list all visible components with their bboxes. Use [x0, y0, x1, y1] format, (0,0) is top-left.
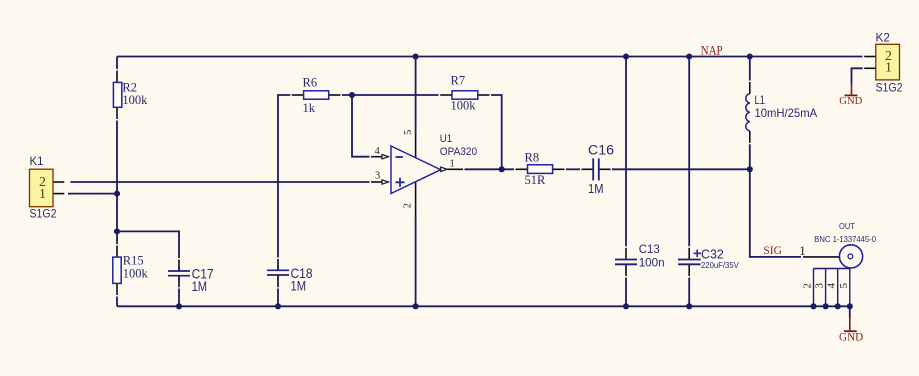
node pin5 top — [413, 53, 419, 59]
pin R8 left — [516, 168, 528, 170]
pin arrow in- — [382, 155, 389, 159]
wire top rail NAP — [117, 56, 863, 58]
svg-text:GND: GND — [839, 95, 862, 107]
wire opamp pin5 to top rail net — [415, 57, 417, 135]
pin R6 right — [329, 94, 341, 96]
svg-text:BNC 1-1337445-0: BNC 1-1337445-0 — [814, 234, 876, 244]
svg-text:R15: R15 — [123, 253, 144, 267]
svg-text:220uF/35V: 220uF/35V — [701, 261, 739, 270]
pin U1-2 — [415, 182, 417, 216]
pin K2-1 — [864, 67, 876, 69]
svg-text:100n: 100n — [639, 255, 665, 269]
pin R7 right — [478, 94, 490, 96]
inductor L1 — [746, 93, 817, 131]
svg-text:3: 3 — [375, 171, 380, 182]
node C18 bottom — [275, 303, 281, 309]
pin C17 top — [178, 260, 180, 272]
svg-text:1: 1 — [39, 187, 46, 202]
wire R8 net to C16 — [566, 168, 580, 170]
svg-text:5: 5 — [403, 130, 414, 135]
resistor R8 — [525, 150, 553, 187]
wire feedback down to pin 4 net — [352, 95, 370, 157]
wire bottom rail GND — [117, 305, 850, 307]
pin C16 right — [599, 168, 611, 170]
svg-text:3: 3 — [814, 283, 826, 289]
pin U1-5 — [415, 135, 417, 158]
svg-text:1: 1 — [885, 61, 892, 76]
svg-text:2: 2 — [802, 283, 814, 289]
ground K2 GND — [839, 84, 862, 107]
svg-text:OUT: OUT — [839, 221, 855, 231]
svg-text:C32: C32 — [701, 247, 724, 262]
pin L1 bottom — [749, 131, 751, 143]
node C17 bottom — [176, 303, 182, 309]
connector K1 — [30, 154, 57, 221]
node C13 top — [623, 53, 629, 59]
pin L1 top — [749, 82, 751, 94]
wire K2 pin1 net to GND — [852, 68, 863, 83]
wire left vertical middle (net R2 to C17 branch) — [116, 121, 118, 245]
pin R6 left — [292, 94, 304, 96]
pin C16 left — [582, 168, 594, 170]
pin C18 bottom — [277, 275, 279, 287]
node L1 top — [747, 53, 753, 59]
wire K1 pin2 to opamp +in net — [71, 181, 370, 183]
node SIG/L1 — [747, 166, 753, 172]
wire R6 left net to C18 — [278, 95, 290, 258]
node R6/R7/pin4 — [349, 92, 355, 98]
pin C13 bottom — [625, 264, 627, 276]
node C32 top — [686, 53, 692, 59]
svg-text:1M: 1M — [192, 279, 208, 294]
BNC shield pins bar — [814, 268, 850, 270]
BNC pin 5 — [849, 269, 851, 307]
svg-text:U1: U1 — [440, 133, 452, 145]
pin C32 bottom — [688, 264, 690, 276]
wire opamp pin2 to bottom rail net — [415, 216, 417, 306]
pin R15 top — [116, 246, 118, 258]
pin R2 top — [116, 71, 118, 83]
pin K1-2 — [53, 181, 64, 183]
svg-text:SIG: SIG — [763, 243, 782, 257]
wire left vertical upper (net above R2) — [116, 57, 118, 70]
svg-text:OPA320: OPA320 — [440, 146, 477, 158]
svg-text:1M: 1M — [588, 182, 604, 196]
wire branch to C17 — [117, 231, 179, 258]
capacitor C32 (polarized) — [678, 247, 739, 271]
node BNC pin5 — [847, 303, 853, 309]
svg-text:100k: 100k — [122, 93, 148, 107]
pin U1-1 — [447, 168, 463, 170]
pin R15 bottom — [116, 283, 118, 295]
pin C17 bottom — [178, 276, 180, 288]
svg-text:1: 1 — [799, 243, 806, 258]
pin BNC-1 — [803, 256, 839, 258]
wire left vertical lower (net below R15) — [116, 297, 118, 307]
svg-text:S1G2: S1G2 — [876, 80, 903, 94]
node BNC pin4 — [835, 303, 841, 309]
node K1 pin1 — [114, 191, 120, 197]
svg-text:K1: K1 — [30, 154, 44, 168]
wire L1 bottom net — [749, 144, 751, 169]
wire R6 right to R7 left net — [342, 94, 439, 96]
wire C17 bottom net — [178, 289, 180, 307]
pin C18 top — [277, 259, 279, 270]
svg-text:R8: R8 — [525, 150, 540, 164]
wire C18 bottom net — [277, 289, 279, 307]
pin R7 left — [440, 94, 452, 96]
node opamp out — [499, 166, 505, 172]
capacitor C17 — [168, 266, 214, 294]
resistor R7 — [451, 74, 478, 113]
pin C32 top — [688, 248, 690, 260]
pin U1-4 — [371, 156, 382, 158]
svg-text:4: 4 — [375, 146, 381, 157]
wire C13 vertical nets — [625, 57, 627, 307]
svg-text:100k: 100k — [123, 266, 149, 280]
pin R2 bottom — [116, 107, 118, 119]
connector K2 — [876, 30, 903, 94]
resistor R15 — [113, 253, 149, 283]
svg-text:K2: K2 — [876, 30, 890, 44]
pin K1-1 — [53, 193, 64, 195]
svg-text:1k: 1k — [303, 101, 316, 115]
pin K2-2 — [864, 56, 876, 58]
resistor R6 — [303, 76, 329, 115]
svg-text:2: 2 — [403, 203, 414, 208]
wire C16 net to L1 bottom node — [612, 168, 750, 170]
svg-text:NAP: NAP — [701, 44, 723, 58]
node C13 bottom — [623, 303, 629, 309]
op-amp U1 — [375, 130, 478, 209]
svg-text:R7: R7 — [451, 74, 466, 88]
ground BNC GND — [839, 318, 863, 344]
pin arrow in+ — [382, 180, 389, 184]
BNC pin 4 — [837, 269, 839, 307]
wire R7 right net down to output node — [491, 95, 502, 169]
BNC connector OUT — [799, 221, 876, 306]
pin U1-3 — [371, 181, 382, 183]
svg-text:100k: 100k — [451, 99, 477, 113]
svg-text:1: 1 — [449, 157, 455, 169]
wire K1 pin1 net — [68, 193, 117, 195]
wire C32 vertical nets — [688, 57, 690, 307]
svg-text:C16: C16 — [588, 142, 614, 158]
svg-text:GND: GND — [839, 331, 863, 343]
wire SIG node down and to BNC pin1 net — [750, 169, 801, 257]
plus sign — [694, 250, 702, 258]
node C17 branch — [114, 228, 120, 234]
svg-text:1M: 1M — [291, 279, 307, 294]
wire BNC pin5 to GND — [849, 306, 851, 318]
node BNC pin3 — [823, 303, 829, 309]
wire L1 top net — [749, 57, 751, 81]
svg-text:5: 5 — [838, 283, 850, 289]
BNC pin 2 — [813, 269, 815, 307]
node BNC pin2 — [810, 303, 816, 309]
pin R8 right — [553, 168, 565, 170]
node pin2 bottom — [413, 303, 419, 309]
capacitor C16 — [588, 142, 614, 196]
pin C13 top — [625, 248, 627, 260]
capacitor C13 — [615, 242, 665, 269]
svg-text:C13: C13 — [639, 242, 660, 256]
wire opamp output net to R8 — [465, 168, 515, 170]
svg-text:4: 4 — [826, 283, 838, 289]
svg-text:10mH/25mA: 10mH/25mA — [755, 106, 818, 120]
resistor R2 — [113, 81, 148, 108]
svg-text:R6: R6 — [303, 76, 318, 90]
BNC pin 3 — [825, 269, 827, 307]
pin arrow out — [441, 167, 448, 171]
svg-text:S1G2: S1G2 — [30, 206, 57, 220]
node C32 bottom — [686, 303, 692, 309]
svg-text:51R: 51R — [525, 173, 547, 187]
capacitor C18 — [267, 266, 313, 294]
